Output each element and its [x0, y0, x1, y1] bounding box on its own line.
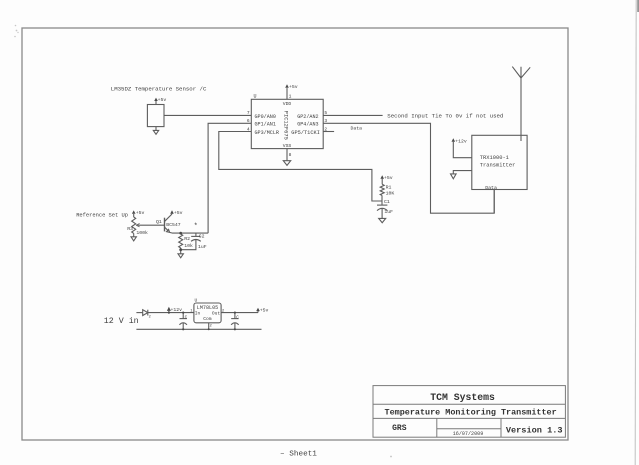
svg-text:1: 1	[289, 93, 292, 99]
svg-text:+5v: +5v	[174, 210, 183, 216]
svg-text:Data: Data	[351, 125, 363, 131]
svg-text:1uF: 1uF	[198, 244, 207, 250]
svg-text:VDD: VDD	[283, 101, 292, 107]
svg-text:GP0/AN0: GP0/AN0	[255, 114, 276, 120]
svg-text:Com: Com	[203, 316, 212, 322]
svg-text:+12v: +12v	[455, 139, 467, 145]
svg-text:In: In	[195, 310, 201, 316]
svg-text:2: 2	[149, 315, 151, 319]
svg-text:– Sheet1: – Sheet1	[280, 450, 317, 458]
svg-text:5: 5	[324, 110, 327, 116]
svg-text:+5v: +5v	[136, 210, 145, 216]
svg-text:Version 1.3: Version 1.3	[506, 425, 563, 435]
svg-text:C1: C1	[384, 199, 390, 205]
svg-text:10k: 10k	[184, 243, 193, 249]
svg-text:*: *	[194, 223, 198, 231]
svg-text:GP4/AN3: GP4/AN3	[297, 122, 318, 128]
svg-text:GP1/AN1: GP1/AN1	[255, 122, 276, 128]
svg-text:R2: R2	[184, 236, 190, 242]
svg-text:GP2/AN2: GP2/AN2	[297, 114, 318, 120]
svg-text:R1: R1	[386, 184, 392, 190]
svg-text:GRS: GRS	[392, 424, 407, 433]
svg-text:Temperature Monitoring Transmi: Temperature Monitoring Transmitter	[385, 407, 557, 417]
svg-text:10K: 10K	[386, 191, 395, 197]
svg-text:6: 6	[247, 118, 250, 124]
svg-text:8: 8	[289, 152, 292, 158]
svg-text:+12v: +12v	[171, 307, 183, 313]
svg-text:C: C	[236, 315, 239, 320]
svg-text:Second Input Tie To 0v if not: Second Input Tie To 0v if not used	[387, 113, 503, 120]
svg-text:4: 4	[247, 126, 250, 132]
svg-text:Data: Data	[485, 185, 497, 191]
svg-text:C2: C2	[199, 233, 205, 239]
svg-text:TCM Systems: TCM Systems	[430, 392, 495, 403]
svg-text:16/07/2009: 16/07/2009	[453, 431, 484, 437]
svg-text:+5v: +5v	[158, 97, 167, 103]
svg-text:12 V in: 12 V in	[104, 316, 139, 326]
svg-text:2: 2	[324, 126, 327, 132]
svg-text:Out: Out	[212, 310, 221, 316]
svg-text:GP5/T1CKI: GP5/T1CKI	[291, 130, 320, 136]
svg-text:7: 7	[247, 110, 250, 116]
svg-text:+5v: +5v	[260, 307, 269, 313]
svg-text:U: U	[254, 94, 257, 100]
svg-text:VSS: VSS	[283, 143, 292, 149]
svg-text:LM78L05: LM78L05	[197, 305, 218, 311]
svg-text:+5v: +5v	[289, 84, 298, 90]
svg-text:Reference Set Up: Reference Set Up	[76, 213, 128, 219]
svg-text:R3: R3	[127, 226, 133, 232]
svg-text:U: U	[195, 298, 198, 304]
svg-text:3: 3	[324, 118, 327, 124]
svg-text:PIC12F675: PIC12F675	[283, 111, 289, 140]
svg-text:LM35DZ Temperature Sensor /C: LM35DZ Temperature Sensor /C	[111, 85, 207, 92]
svg-text:C: C	[185, 315, 188, 320]
svg-text:1uF: 1uF	[384, 209, 393, 215]
svg-text:BC547: BC547	[166, 222, 181, 228]
svg-text:100k: 100k	[136, 230, 148, 236]
svg-text:Transmitter: Transmitter	[480, 162, 516, 168]
svg-text:TRX1000-1: TRX1000-1	[480, 155, 509, 161]
svg-text:Q1: Q1	[156, 219, 162, 225]
svg-text:+5v: +5v	[384, 175, 393, 181]
svg-text:GP3/MCLR: GP3/MCLR	[255, 130, 279, 136]
